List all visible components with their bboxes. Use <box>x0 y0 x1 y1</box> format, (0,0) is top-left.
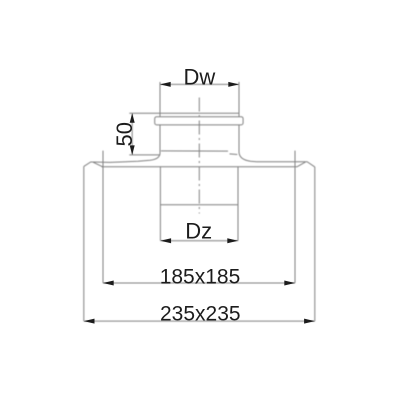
svg-text:Dz: Dz <box>185 219 212 244</box>
svg-text:Dw: Dw <box>184 65 216 90</box>
svg-text:185x185: 185x185 <box>160 266 241 289</box>
svg-text:50: 50 <box>112 122 137 146</box>
svg-text:235x235: 235x235 <box>160 302 241 325</box>
